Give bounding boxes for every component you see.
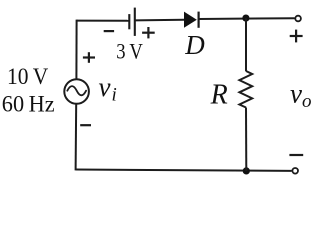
wire left vertical: top corner to source xyxy=(75,20,77,80)
diode D xyxy=(184,12,199,28)
wire right vertical: resistor to bottom junction xyxy=(245,108,247,171)
wire top: left corner to battery xyxy=(77,20,130,22)
svg-text:3 V: 3 V xyxy=(116,39,143,64)
terminal vo plus xyxy=(295,16,301,22)
label battery plus xyxy=(142,27,155,38)
node: bottom junction xyxy=(243,167,250,174)
wire top: battery to diode xyxy=(135,19,184,22)
label battery minus xyxy=(104,30,114,32)
svg-text:R: R xyxy=(210,80,228,111)
label output plus sign xyxy=(290,30,303,43)
resistor R xyxy=(239,71,252,108)
battery 3V xyxy=(129,8,135,36)
terminal vo minus xyxy=(292,168,298,174)
label source plus sign xyxy=(83,52,95,63)
svg-text:60 Hz: 60 Hz xyxy=(2,92,55,118)
label output minus sign xyxy=(289,154,303,156)
svg-text:10 V: 10 V xyxy=(7,64,48,90)
wire left vertical: source to bottom corner xyxy=(75,104,78,171)
svg-text:D: D xyxy=(184,30,205,60)
node: top junction xyxy=(242,15,249,22)
source vi: AC 10V 60Hz xyxy=(64,79,89,104)
wire right vertical: junction to resistor xyxy=(245,18,247,71)
label source minus sign xyxy=(80,124,91,126)
wire bottom xyxy=(76,170,292,171)
wire top: diode to output terminal xyxy=(199,17,295,20)
